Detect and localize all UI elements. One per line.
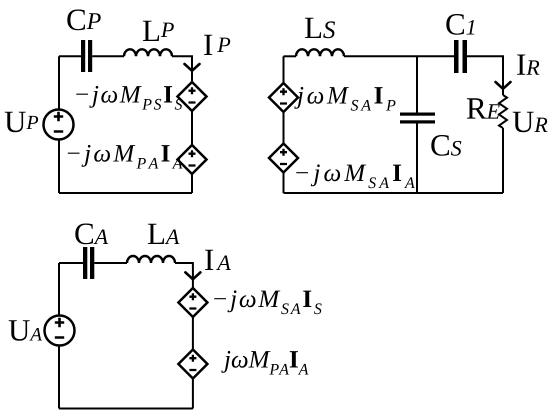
wire: RE to bottom-right corner: [502, 128, 504, 193]
wire: middle branch below CS: [416, 124, 418, 194]
wire: left rail above source UP: [58, 56, 60, 109]
capacitor C1: [454, 40, 467, 73]
wire: left rail below source UP: [58, 140, 60, 194]
wire: between CA and LA: [94, 262, 127, 264]
wire: bottom rail of secondary loop: [284, 192, 504, 194]
wire: bottom rail of auxiliary loop: [59, 408, 193, 410]
value label jwMSA·IP: [294, 87, 395, 111]
label IA: [205, 250, 231, 270]
value label -jwMPS·IS: [76, 86, 182, 110]
value label jwMPA·IA: [221, 351, 308, 375]
wire: left rail to bottom rail: [283, 173, 285, 194]
capacitor CP: [81, 40, 92, 72]
wire: left rail below source UA: [58, 346, 60, 409]
wire: between the auxiliary diamonds: [192, 317, 194, 350]
value label -jwMSA·IA: [296, 164, 415, 188]
capacitor CA: [83, 247, 94, 279]
label CS: [431, 135, 461, 156]
label LP: [143, 21, 174, 41]
label RE: [467, 98, 500, 118]
controlled source -jwMPS·IS (diamond): [178, 82, 207, 111]
wire: LA to top-right corner, down to first source: [175, 263, 193, 288]
capacitor CS: [400, 113, 435, 124]
current arrow IR: [496, 82, 511, 89]
label CA: [75, 224, 108, 245]
wire: between secondary diamonds: [283, 112, 285, 144]
current arrow IP: [185, 64, 200, 71]
resistor RE: [499, 95, 507, 128]
controlled source jwMSA·IP (diamond): [269, 83, 298, 112]
controlled source -jwMPA·IA (diamond): [178, 145, 207, 174]
controlled source -jwMSA·IA (diamond): [269, 144, 298, 173]
label LS: [305, 18, 335, 39]
wire: between CP and LP: [92, 55, 124, 57]
wire: lower-right segment to bottom rail: [191, 174, 193, 193]
label IP: [204, 35, 230, 55]
value label -jwMPA·IA: [68, 145, 183, 169]
voltage source UA: [45, 316, 75, 346]
voltage source UP: [44, 110, 74, 140]
label IR: [517, 55, 539, 75]
wire: LS to capacitor C1: [344, 55, 454, 57]
inductor LA: [127, 256, 175, 263]
label C1: [446, 14, 474, 35]
wire: LP to top-right corner, down to first source: [172, 56, 192, 82]
current arrow IA: [185, 272, 200, 279]
value label -jwMSA·IS: [214, 290, 321, 314]
controlled source jwMPA·IA (diamond): [178, 350, 207, 379]
wire: top-left corner to LS: [284, 55, 297, 57]
label UA: [9, 320, 42, 341]
wire: lower-right segment to bottom rail: [192, 379, 194, 409]
wire: top-left horizontal segment: [59, 55, 81, 57]
wire: between the two controlled sources: [191, 111, 193, 145]
label CP: [67, 10, 100, 31]
wire: left rail above source UA: [58, 263, 60, 316]
inductor LS: [296, 49, 344, 56]
wire: C1 to top-right corner: [467, 56, 503, 95]
wire: left rail above first diamond: [283, 56, 285, 83]
wire: bottom rail of primary loop: [59, 192, 192, 194]
wire: middle branch above CS: [416, 56, 418, 112]
wire: top-left horizontal segment: [59, 262, 83, 264]
inductor LP: [124, 49, 172, 56]
label UR: [513, 112, 548, 133]
controlled source -jwMSA·IS (diamond): [178, 288, 207, 317]
label UP: [5, 112, 38, 133]
label LA: [148, 224, 180, 244]
